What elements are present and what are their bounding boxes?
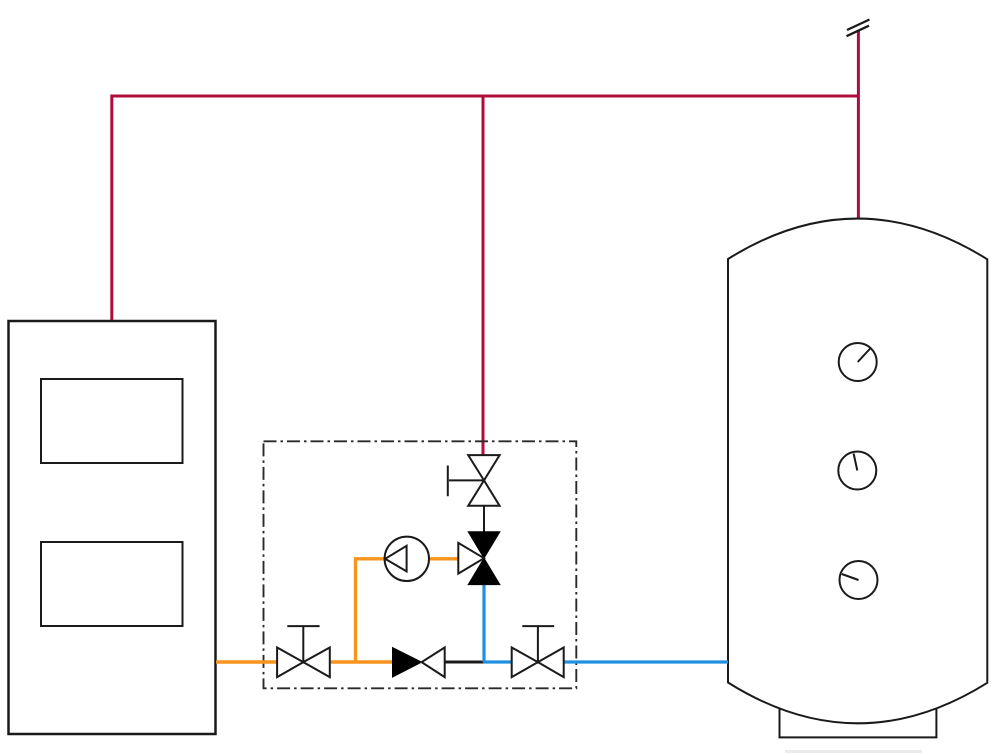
mixing group enclosure (dash-dot box) [264, 441, 577, 688]
wire blue return to tank [483, 660, 728, 663]
boiler lower door [41, 542, 183, 626]
shut-off valve right stem [522, 626, 554, 662]
shut-off valve right (bowtie) [512, 648, 564, 678]
safety valve (outlined bowtie vertical) [468, 455, 499, 506]
boiler upper door [41, 379, 183, 463]
wire red drop to mixing group [482, 96, 485, 456]
wire blue pipe from 3-way valve down [482, 585, 485, 662]
wire orange riser to pump [356, 559, 459, 662]
wire black pipe check valve to node [445, 661, 485, 664]
safety valve stem and handle [448, 466, 484, 497]
wire black connector valve to 3-way [483, 506, 485, 532]
check valve [393, 648, 445, 678]
tank sensor gauge top [839, 343, 877, 381]
shut-off valve left (bowtie) [277, 648, 330, 678]
wire red flow pipe from boiler top [112, 96, 859, 321]
shut-off valve left stem [287, 626, 319, 662]
boiler [9, 321, 216, 734]
buffer tank base skirt [780, 709, 937, 738]
tank sensor gauge middle [838, 452, 876, 490]
tank sensor gauge bottom [840, 561, 878, 599]
3-way mixing valve [458, 532, 500, 585]
wire orange return from boiler [216, 660, 393, 663]
pump P1 [385, 537, 429, 581]
buffer tank body [728, 219, 987, 724]
vent symbol (open pipe slashes) [847, 20, 870, 37]
buffer tank shadow [785, 750, 922, 753]
wire red riser to expansion vent [857, 30, 860, 219]
